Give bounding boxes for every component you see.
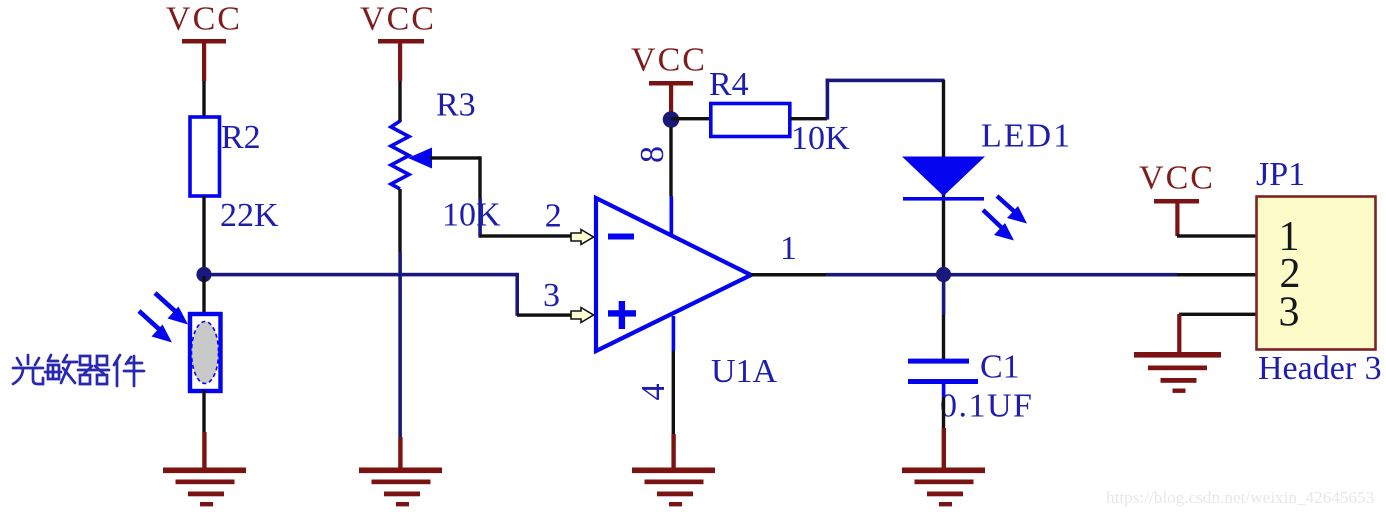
label Header 3: [1258, 350, 1382, 387]
wire wiper bend down: [478, 156, 482, 237]
wire up bend: [826, 79, 830, 120]
svg-text:8: 8: [634, 146, 671, 163]
resistor R2: [190, 117, 220, 196]
R3 wiper arrow: [408, 148, 432, 169]
wire top to LED: [826, 79, 945, 83]
photosensor body: [190, 314, 221, 391]
capacitor C1: [908, 359, 978, 397]
wire (red) into ground 1: [202, 432, 206, 468]
wire header pin 3: [1179, 313, 1256, 316]
label 10K (R3): [442, 197, 501, 234]
wire R4 right: [790, 117, 827, 120]
ground 3: [632, 468, 715, 507]
pin number 1: [780, 230, 797, 267]
svg-text:10K: 10K: [791, 120, 850, 157]
wire (red) into ground 2: [398, 437, 402, 468]
label JP1: [1256, 156, 1305, 193]
ground 4: [902, 468, 985, 507]
pin number 4 (rotated): [635, 384, 672, 401]
svg-text:0.1UF: 0.1UF: [940, 388, 1033, 425]
label R2: [221, 119, 261, 156]
wire (red) into ground 4: [942, 428, 946, 468]
svg-text:LED1: LED1: [981, 118, 1072, 155]
pin number 8 (rotated): [634, 146, 671, 163]
wire bend down toward pin 3: [515, 273, 519, 316]
wire LED vertical: [942, 80, 945, 274]
light arrow 2 at photosensor: [139, 311, 172, 343]
wire op-amp pin 4 down: [672, 316, 676, 434]
pin number 2: [545, 198, 562, 235]
label R4: [709, 66, 749, 103]
svg-text:U1A: U1A: [711, 353, 778, 390]
header pin number 2: [1280, 251, 1301, 297]
svg-text:R2: R2: [221, 119, 261, 156]
wire main net node A to bend: [204, 273, 517, 277]
wire photosensor to ground: [202, 390, 205, 432]
pin number 3: [543, 277, 560, 314]
node C junction dot: [936, 267, 951, 282]
wire wiper to bend: [430, 156, 480, 159]
svg-text:10K: 10K: [442, 197, 501, 234]
svg-text:1: 1: [780, 230, 797, 267]
svg-text:JP1: JP1: [1256, 156, 1305, 193]
wire node A to photosensor: [202, 276, 205, 313]
wire node B to op-amp pin 8: [669, 127, 673, 236]
ground 2: [359, 468, 442, 507]
svg-text:3: 3: [1279, 290, 1300, 336]
pin 3 input arrow: [571, 308, 594, 323]
light arrow 1 at photosensor: [155, 293, 188, 325]
wire VCC to R2: [202, 81, 205, 117]
wire to op-amp pin 2: [480, 234, 571, 237]
svg-text:4: 4: [635, 384, 672, 401]
svg-text:3: 3: [543, 277, 560, 314]
label 10K (R4): [791, 120, 850, 157]
svg-text:VCC: VCC: [360, 1, 436, 38]
wire R3 bottom: [398, 189, 402, 437]
op-amp pin 8 stub inside: [670, 198, 674, 236]
svg-text:22K: 22K: [220, 197, 279, 234]
header pin number 3: [1279, 290, 1300, 336]
LED light arrow 1: [997, 196, 1027, 224]
label C1: [980, 349, 1020, 386]
svg-text:C1: C1: [980, 349, 1020, 386]
wire VCC to header pin 1: [1177, 234, 1256, 237]
wire node C to C1: [942, 274, 946, 360]
op-amp minus sign: [608, 234, 634, 240]
op-amp U1A triangle: [596, 198, 751, 351]
wire node B to R4: [671, 117, 711, 120]
wire C1 to ground: [942, 397, 945, 428]
wire to op-amp pin 3: [517, 313, 571, 316]
svg-text:R4: R4: [709, 66, 749, 103]
pin 2 input arrow: [571, 230, 594, 245]
power symbol VCC (header pin 1): [1139, 160, 1215, 237]
wire R2 to node A: [202, 196, 205, 274]
svg-text:VCC: VCC: [166, 1, 242, 38]
power symbol VCC (above R3): [360, 1, 436, 82]
label 光敏器件 (drawn strokes): [13, 355, 144, 386]
label LED1: [981, 118, 1072, 155]
wire (red) into ground 3: [671, 434, 675, 468]
label 22K: [220, 197, 279, 234]
potentiometer R3 zigzag: [391, 121, 409, 189]
watermark: [1106, 488, 1374, 507]
power symbol VCC (above op-amp): [631, 42, 707, 114]
LED light arrow 2: [983, 210, 1014, 241]
ground 1: [163, 468, 246, 507]
ground 5: [1134, 352, 1221, 393]
op-amp plus sign: [608, 301, 636, 329]
header pin number 1: [1279, 214, 1300, 260]
node B junction dot: [663, 111, 680, 128]
wire (red) pin 3 to ground 5: [1177, 314, 1181, 352]
svg-text:Header 3: Header 3: [1258, 350, 1382, 387]
resistor R4: [711, 104, 790, 137]
label 0.1UF: [940, 388, 1033, 425]
power symbol VCC (left, above R2): [166, 1, 242, 82]
label U1A: [711, 353, 778, 390]
label R3: [436, 87, 476, 124]
svg-text:R3: R3: [436, 87, 476, 124]
wire VCC to R3: [398, 81, 401, 122]
wire op-amp output pin 1: [751, 273, 1256, 277]
svg-text:2: 2: [545, 198, 562, 235]
LED1 cathode bar: [903, 197, 984, 201]
svg-text:VCC: VCC: [631, 42, 707, 79]
svg-text:https://blog.csdn.net/weixin_4: https://blog.csdn.net/weixin_42645653: [1106, 488, 1374, 507]
svg-text:VCC: VCC: [1139, 160, 1215, 197]
connector JP1 body: [1257, 197, 1376, 350]
node A junction dot: [196, 267, 211, 282]
LED1 diode triangle: [902, 157, 985, 197]
